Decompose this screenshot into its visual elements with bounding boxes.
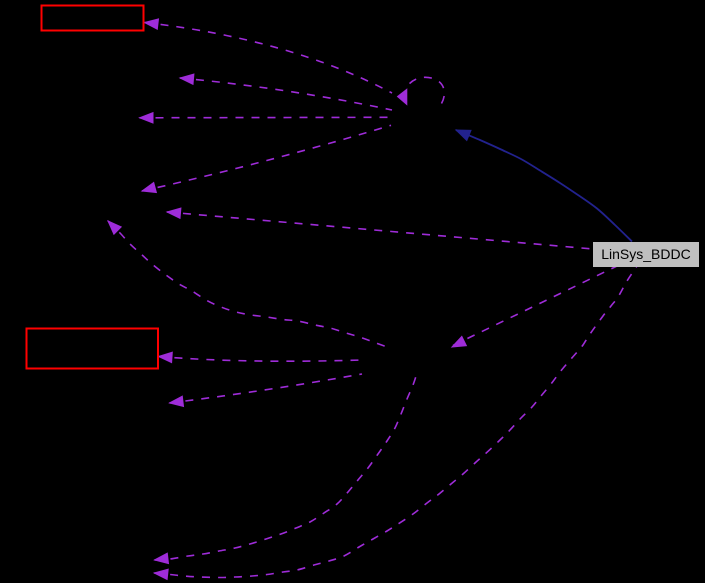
red node box 2: [27, 329, 159, 369]
arrowhead K: [154, 569, 168, 579]
arrowhead blue M: [456, 130, 471, 141]
arrowhead L: [452, 336, 466, 347]
arrowhead D: [142, 183, 156, 193]
wire L: [453, 266, 617, 346]
wire I: [170, 374, 363, 403]
arrowhead G: [108, 221, 121, 234]
wire H: [159, 357, 363, 362]
arrowhead B: [180, 74, 194, 84]
self-loop E: [407, 77, 445, 103]
wire B: [180, 78, 392, 110]
arrowhead I: [170, 396, 184, 406]
node LinSys_BDDC: [593, 242, 699, 267]
arrowhead H: [159, 352, 173, 362]
arrowhead E (self loop): [398, 89, 407, 104]
wire F: [167, 212, 593, 249]
inheritance arrow blue: [456, 130, 632, 242]
arrowhead C: [140, 113, 154, 123]
red node box 1: [42, 6, 144, 31]
wire A: [145, 23, 393, 94]
arrowhead F: [167, 208, 181, 218]
wire J: [155, 373, 418, 560]
wire C: [140, 116, 392, 119]
arrowhead A: [145, 19, 159, 29]
wire G: [108, 221, 390, 348]
wire D: [142, 125, 391, 191]
wire K: [154, 266, 637, 578]
arrowhead J: [155, 553, 169, 563]
